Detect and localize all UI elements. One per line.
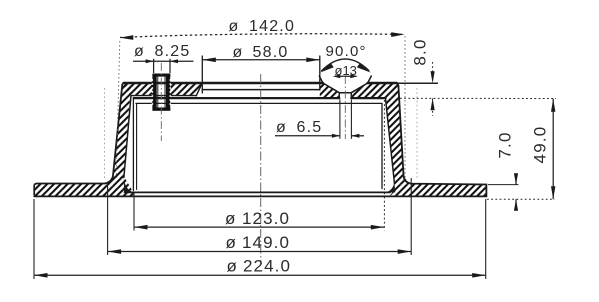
- svg-text:ø: ø: [225, 209, 236, 228]
- svg-text:ø: ø: [134, 43, 145, 60]
- svg-text:90.0°: 90.0°: [326, 43, 367, 60]
- svg-text:ø: ø: [227, 257, 238, 276]
- svg-text:142.0: 142.0: [249, 18, 295, 35]
- svg-text:123.0: 123.0: [242, 209, 290, 228]
- svg-text:224.0: 224.0: [243, 257, 291, 276]
- svg-text:58.0: 58.0: [253, 44, 289, 61]
- svg-text:8.0: 8.0: [411, 38, 430, 65]
- svg-text:6.5: 6.5: [297, 119, 323, 136]
- svg-text:7.0: 7.0: [496, 131, 515, 158]
- svg-text:ø: ø: [229, 18, 240, 35]
- svg-text:8.25: 8.25: [155, 43, 191, 60]
- svg-text:ø: ø: [233, 44, 244, 61]
- svg-text:ø13: ø13: [335, 63, 357, 78]
- svg-text:ø: ø: [226, 233, 237, 252]
- svg-text:ø: ø: [276, 119, 287, 136]
- svg-text:149.0: 149.0: [242, 233, 290, 252]
- svg-text:49.0: 49.0: [531, 126, 550, 164]
